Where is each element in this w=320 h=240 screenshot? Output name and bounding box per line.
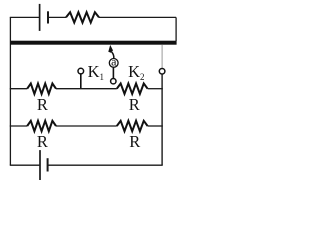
svg-text:R: R	[129, 95, 140, 114]
resistor R rail1 right	[117, 84, 148, 94]
potentiometer wire thick bar	[10, 41, 176, 45]
svg-text:a: a	[111, 55, 117, 69]
battery B2 short plate	[47, 158, 49, 171]
resistor R rail2 left	[27, 121, 56, 131]
wire K1 terminal down to rail 1	[80, 74, 82, 89]
svg-text:R: R	[37, 132, 48, 151]
svg-text:R: R	[37, 95, 48, 114]
rail 2 wire right	[148, 125, 163, 127]
svg-text:R: R	[129, 132, 140, 151]
wire right lower edge	[161, 74, 163, 165]
battery B1 long plate	[39, 4, 41, 31]
svg-text:K2: K2	[128, 62, 144, 82]
svg-text:K1: K1	[88, 62, 104, 82]
wire right edge top loop	[175, 17, 177, 41]
resistor R rail1 left	[27, 84, 56, 94]
wire resistor to right edge	[99, 16, 176, 18]
rail 1 wire left	[10, 88, 27, 90]
rail 2 wire middle	[56, 125, 117, 127]
resistor top (series)	[66, 12, 99, 22]
resistor R rail2 right	[117, 121, 148, 131]
wire bottom right segment	[48, 164, 163, 166]
jockey arrow to node a	[108, 45, 114, 58]
rail 1 wire right	[148, 88, 163, 90]
wire battery to resistor	[48, 16, 66, 18]
battery B1 short plate	[47, 11, 49, 23]
node a circled label	[109, 55, 118, 69]
terminal under a	[111, 79, 116, 84]
wire left edge	[9, 17, 11, 165]
wire node a to terminal	[112, 67, 114, 78]
faint wire bar to K2 terminal	[161, 45, 163, 69]
terminal K2 right	[159, 69, 165, 75]
terminal K1 left	[78, 68, 84, 74]
rail 2 wire left	[10, 125, 27, 127]
battery B2 long plate	[39, 150, 41, 180]
rail 1 wire middle	[56, 88, 117, 90]
wire top left segment	[10, 16, 40, 18]
wire bottom left segment	[10, 164, 40, 166]
